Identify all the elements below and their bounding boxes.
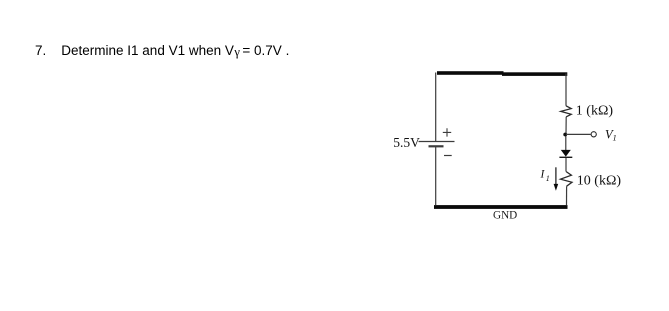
svg-text:1: 1: [546, 174, 550, 183]
battery 5.5V long plate (+): [419, 141, 455, 143]
svg-text:GND: GND: [493, 210, 517, 222]
svg-text:1 (kΩ): 1 (kΩ): [576, 104, 614, 119]
svg-text:I: I: [540, 169, 546, 181]
wire R1 to node: [565, 117, 567, 150]
wire left vertical lower (battery - to bottom rail): [435, 146, 437, 205]
wire right vertical upper (top rail to R1): [565, 74, 567, 106]
wire left vertical upper (top rail to battery +): [435, 73, 437, 142]
resistor R2 zigzag: [561, 172, 573, 187]
wire diode to R2: [565, 158, 567, 172]
svg-text:1: 1: [613, 133, 617, 143]
diode D1 (anode triangle): [561, 150, 571, 157]
wire R2 to bottom rail: [566, 186, 568, 205]
top rail left segment (wire): [437, 71, 504, 75]
battery plus sign: [443, 128, 451, 136]
svg-text:10 (kΩ): 10 (kΩ): [577, 174, 622, 189]
current arrow I1 head: [554, 184, 559, 191]
current arrow I1 shaft: [555, 167, 557, 184]
resistor R1 zigzag: [561, 106, 571, 117]
svg-text:5.5V: 5.5V: [393, 135, 420, 150]
battery minus sign: [444, 155, 452, 157]
battery 5.5V short plate (-): [429, 145, 444, 147]
top rail right segment (wire): [502, 72, 567, 76]
node junction dot: [563, 133, 567, 137]
terminal V1 open circle: [591, 132, 596, 137]
bottom rail / ground bus (wire): [434, 205, 568, 209]
problem statement text: [35, 43, 289, 59]
wire node to V1 terminal: [566, 133, 591, 135]
diode D1 cathode bar: [559, 156, 572, 158]
